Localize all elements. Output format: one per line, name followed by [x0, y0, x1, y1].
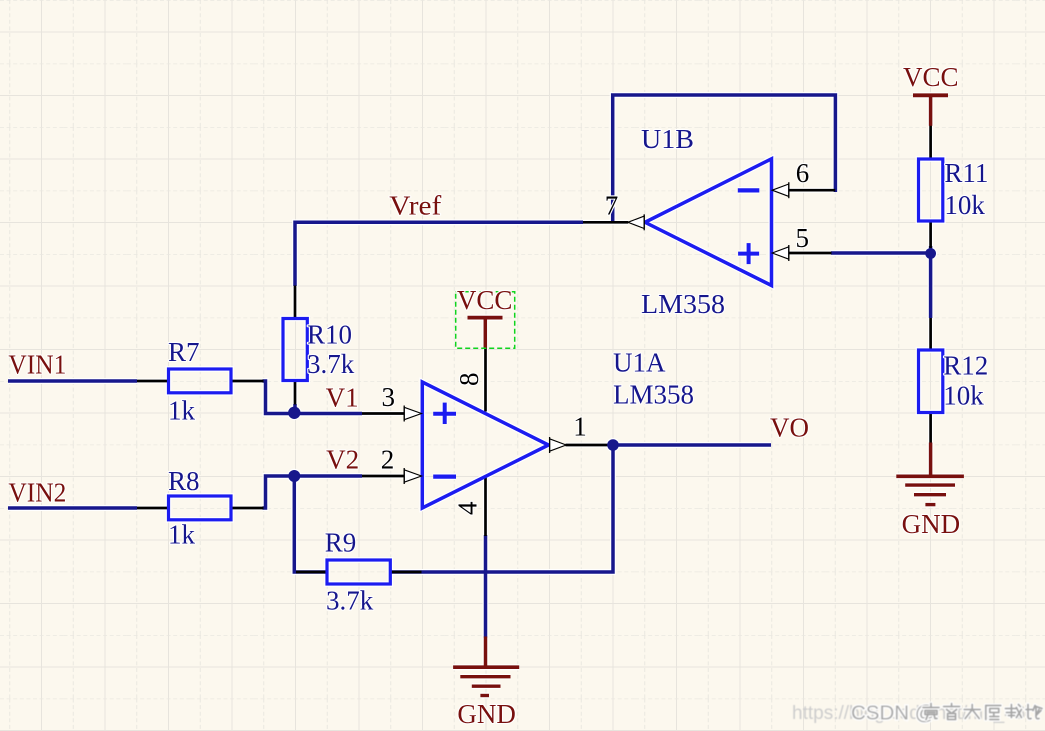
- svg-text:1k: 1k: [168, 520, 196, 550]
- svg-text:Vref: Vref: [389, 190, 441, 220]
- svg-text:VO: VO: [770, 413, 809, 443]
- svg-text:R11: R11: [944, 158, 988, 188]
- svg-text:7: 7: [605, 191, 619, 221]
- svg-text:U1A: U1A: [613, 348, 666, 378]
- svg-text:R8: R8: [168, 466, 200, 496]
- svg-text:U1B: U1B: [641, 124, 694, 154]
- svg-text:V1: V1: [326, 382, 359, 412]
- svg-text:R9: R9: [325, 527, 357, 557]
- svg-text:10k: 10k: [944, 190, 985, 220]
- svg-text:LM358: LM358: [613, 379, 694, 409]
- svg-text:8: 8: [454, 373, 484, 387]
- svg-text:1: 1: [573, 411, 587, 441]
- svg-text:10k: 10k: [943, 381, 984, 411]
- svg-text:1k: 1k: [168, 396, 196, 426]
- svg-text:6: 6: [796, 158, 810, 188]
- svg-text:2: 2: [381, 445, 395, 475]
- svg-text:GND: GND: [457, 699, 516, 729]
- svg-text:VCC: VCC: [903, 62, 959, 92]
- svg-text:3.7k: 3.7k: [326, 585, 374, 615]
- svg-text:5: 5: [796, 223, 810, 253]
- svg-text:LM358: LM358: [641, 289, 725, 319]
- svg-text:4: 4: [453, 501, 483, 515]
- svg-text:CSDN @: CSDN @: [851, 702, 936, 725]
- svg-text:3: 3: [382, 382, 396, 412]
- svg-text:R10: R10: [307, 320, 352, 350]
- svg-text:3.7k: 3.7k: [307, 349, 355, 379]
- svg-text:V2: V2: [326, 444, 359, 474]
- svg-text:R12: R12: [943, 351, 988, 381]
- svg-text:GND: GND: [902, 509, 961, 539]
- svg-text:VIN1: VIN1: [8, 350, 66, 380]
- svg-text:R7: R7: [168, 337, 200, 367]
- svg-text:VIN2: VIN2: [8, 477, 66, 507]
- svg-text:VCC: VCC: [457, 285, 513, 315]
